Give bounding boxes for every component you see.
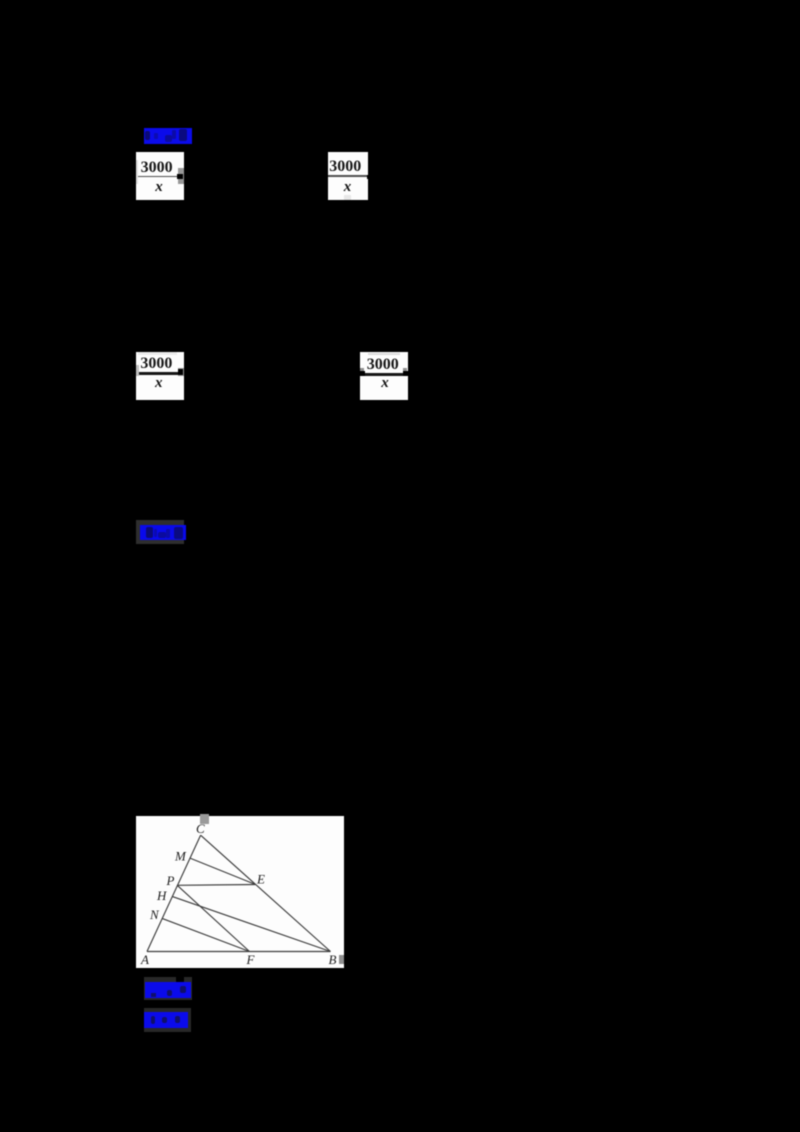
blue label block 1 (highlighted 【...】 text) <box>144 128 193 145</box>
svg-text:P: P <box>166 873 175 888</box>
equation box 2: 3000/x <box>328 152 368 200</box>
blue label block 2 (gray field + blue highlight) <box>136 520 184 544</box>
svg-text:M: M <box>174 849 187 864</box>
equation box 1: 3000/x with right handle <box>136 152 184 200</box>
geometry figure: triangle ABC with cevians <box>136 816 344 968</box>
svg-text:B: B <box>329 952 337 967</box>
gray handle at figure top <box>200 814 209 824</box>
blue label block 4 (blue text on gray field) <box>144 1008 191 1032</box>
side AB <box>147 951 331 953</box>
svg-text:N: N <box>149 907 160 922</box>
cevian N-F <box>162 918 249 951</box>
blue label block 3 (blue text on gray field) <box>144 977 192 1000</box>
side CB <box>201 835 331 951</box>
side AC <box>147 835 201 951</box>
svg-text:F: F <box>246 952 256 967</box>
svg-text:H: H <box>156 888 167 903</box>
cevian H-B <box>172 896 330 951</box>
segment P-E <box>177 884 255 887</box>
gray smudge near B <box>339 955 344 964</box>
equation box 3: 3000/x with right handle <box>136 352 184 400</box>
cevian M-E <box>190 858 256 885</box>
svg-text:A: A <box>140 952 149 967</box>
equation box 4: 3000/x with left+right handles <box>360 352 408 400</box>
svg-text:E: E <box>256 872 265 887</box>
cevian P-F <box>177 885 249 951</box>
